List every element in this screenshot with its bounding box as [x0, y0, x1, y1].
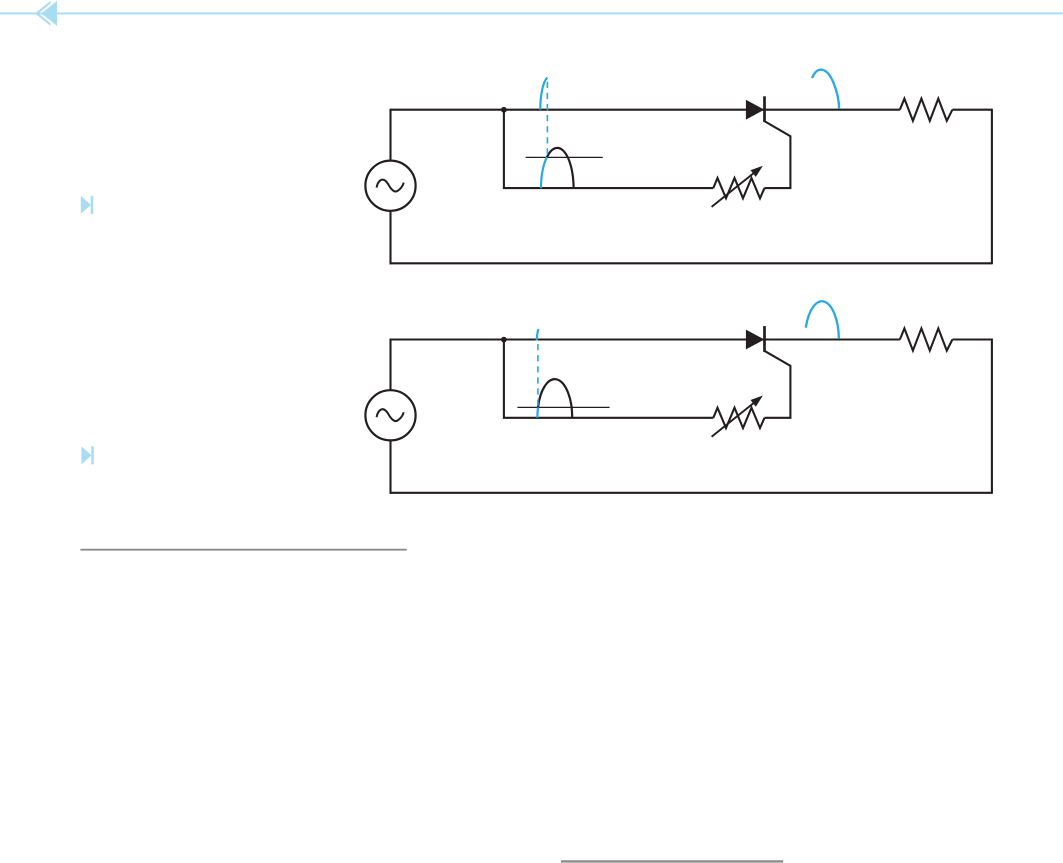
resistor RL2 (load, top right) — [900, 328, 953, 350]
rheostat R2 arrow shaft — [712, 401, 757, 437]
wire: source top lead — [389, 339, 391, 391]
gate waveform pre-trigger segment (blue) — [541, 157, 547, 188]
bookmark icon 2 (skip marker, left margin, bottom circuit) — [81, 446, 93, 464]
SCR Q2 cathode bar — [763, 326, 766, 352]
gate waveform axis (trigger level line, bottom circuit) — [517, 406, 609, 408]
wire: source bottom lead — [389, 211, 391, 264]
node B (junction dot, bottom circuit) — [501, 337, 507, 343]
gate waveform pulse (black, after trigger, bottom circuit) — [538, 379, 572, 418]
nav rule (light blue page header line) — [0, 12, 1063, 14]
wire: bottom rail — [390, 492, 992, 494]
wire: rheostat to gate vertical — [764, 121, 790, 188]
SCR Q2 anode triangle — [746, 330, 764, 350]
wire: right rail — [991, 109, 993, 265]
rheostat R2 arrowhead — [751, 396, 763, 407]
gate waveform pre-trigger segment (blue, bottom circuit) — [536, 407, 539, 417]
wire: right rail — [991, 339, 993, 494]
rheostat R2 zigzag — [713, 408, 764, 428]
wire: top rail from source to load resistor — [391, 109, 900, 111]
wire: rheostat to gate vertical — [764, 351, 790, 418]
gate waveform axis (trigger level line, top circuit) — [526, 156, 603, 158]
rheostat R1 arrow shaft — [712, 171, 757, 207]
wire: gate branch (node vertical + middle wire) — [504, 110, 713, 188]
rheostat R1 zigzag — [713, 178, 764, 198]
load current waveform (blue arch after SCR, top circuit) — [812, 70, 839, 109]
node A (junction dot, top circuit) — [501, 107, 507, 113]
ac source V2 sine glyph — [377, 409, 404, 421]
footer rule (gray, bottom center) — [561, 860, 783, 862]
SCR Q1 anode triangle — [746, 100, 764, 120]
source waveform rising edge (blue tick above rail, bottom circuit) — [537, 329, 539, 341]
nav previous icon (double left arrow) — [35, 0, 57, 27]
gate waveform pulse (black, after trigger) — [547, 148, 574, 188]
wire: top rail from source to load resistor — [391, 338, 900, 340]
wire: top rail from load resistor to right corner — [952, 338, 992, 340]
SCR Q1 cathode bar — [763, 96, 766, 122]
ac source V2 — [365, 390, 415, 440]
trigger point dashed line (blue, bottom circuit) — [537, 344, 539, 407]
wire: source top lead — [389, 109, 391, 161]
ac source V1 sine glyph — [377, 180, 404, 192]
wire: gate branch (node vertical + middle wire) — [504, 340, 713, 418]
wire: top rail from load resistor to right corner — [952, 109, 992, 111]
resistor RL (load, top right) — [900, 99, 953, 121]
ac source V1 — [365, 161, 415, 211]
load current waveform (blue arch after SCR, bottom circuit) — [806, 301, 839, 339]
trigger point dashed line (blue, top circuit) — [546, 82, 548, 157]
wire: source bottom lead — [389, 440, 391, 493]
bookmark icon 1 (skip marker, left margin, top circuit) — [81, 196, 93, 214]
rheostat R1 arrowhead — [751, 166, 763, 177]
source waveform rising edge (blue, above top rail) — [540, 78, 547, 110]
wire: bottom rail — [390, 262, 992, 264]
divider rule (gray, under circuits) — [80, 549, 406, 551]
